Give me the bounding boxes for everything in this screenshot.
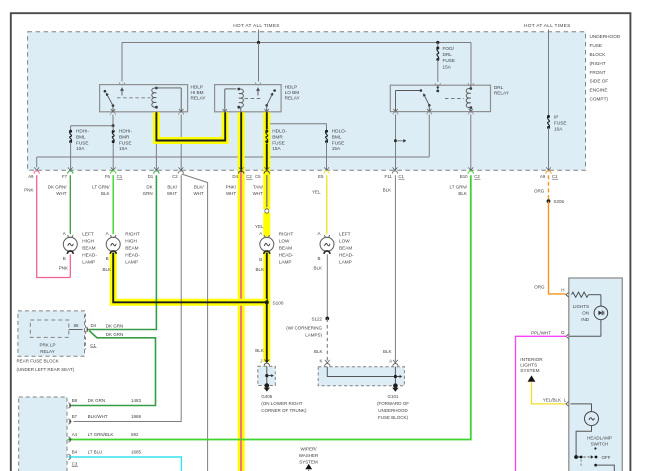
svg-text:B: B [259,257,262,262]
svg-text:BLK: BLK [313,266,322,271]
svg-text:BML: BML [332,134,342,139]
svg-text:A: A [63,231,66,236]
svg-text:WHT: WHT [56,191,66,196]
svg-text:FRONT: FRONT [590,70,606,75]
svg-text:FUSE: FUSE [332,140,345,145]
svg-text:HDLO-: HDLO- [332,129,347,134]
svg-text:BLK: BLK [383,188,392,193]
svg-text:B: B [106,256,109,261]
svg-text:C5: C5 [255,174,261,179]
svg-text:LEFT: LEFT [82,232,94,237]
svg-text:F7: F7 [62,174,68,179]
svg-text:S100: S100 [273,301,284,306]
svg-text:BMR: BMR [272,134,283,139]
svg-text:FUSE: FUSE [443,58,456,63]
svg-text:1483: 1483 [131,398,142,403]
svg-text:IP: IP [554,115,558,120]
svg-text:YEL: YEL [312,190,321,195]
svg-text:10A: 10A [76,146,85,151]
svg-text:D4: D4 [232,174,238,179]
svg-text:S206: S206 [554,199,565,204]
svg-text:A: A [106,231,109,236]
svg-text:DK GRN: DK GRN [88,398,106,403]
svg-text:FOG/: FOG/ [443,46,455,51]
svg-text:LAMPS): LAMPS) [305,332,322,337]
svg-text:15A: 15A [443,64,452,69]
svg-text:C2: C2 [172,174,178,179]
svg-text:WIPER/: WIPER/ [300,447,317,452]
svg-text:UNDERHOOD: UNDERHOOD [590,34,621,39]
svg-text:LO BM: LO BM [285,90,300,95]
svg-text:C1: C1 [552,174,558,179]
svg-text:BML: BML [76,134,86,139]
svg-text:LOW: LOW [339,239,350,244]
svg-text:HOT AT ALL TIMES: HOT AT ALL TIMES [524,23,571,29]
svg-text:FUSE: FUSE [590,43,603,48]
svg-text:A9: A9 [28,174,34,179]
svg-text:LIGHTS: LIGHTS [573,304,589,309]
svg-text:K: K [319,359,322,364]
svg-text:C2: C2 [246,174,252,179]
svg-text:BLK: BLK [101,191,110,196]
svg-text:DK GRN: DK GRN [106,323,124,328]
svg-text:SIDE OF: SIDE OF [590,79,609,84]
svg-text:PNK: PNK [24,188,33,193]
svg-text:FUSE: FUSE [119,140,132,145]
svg-text:GRN: GRN [143,191,153,196]
svg-text:10A: 10A [119,146,128,151]
svg-text:WASHER: WASHER [299,453,319,458]
svg-text:FUSE: FUSE [554,121,567,126]
svg-text:HDLP: HDLP [285,85,298,90]
svg-text:LT GRN/: LT GRN/ [450,184,468,189]
svg-text:C1: C1 [90,343,96,348]
svg-text:PNK: PNK [59,266,68,271]
svg-text:BLK: BLK [314,349,323,354]
svg-text:FUSE BLOCK): FUSE BLOCK) [378,415,409,420]
svg-text:(ON LOWER RIGHT: (ON LOWER RIGHT [261,401,303,406]
svg-text:A9: A9 [540,174,546,179]
svg-text:ORG: ORG [534,189,545,194]
svg-text:B8: B8 [72,398,78,403]
svg-text:PRK LP: PRK LP [39,343,55,348]
svg-text:LIGHTS: LIGHTS [520,363,537,368]
svg-text:SYSTEM: SYSTEM [299,460,318,465]
svg-text:DK GRN: DK GRN [106,332,124,337]
svg-text:BLK: BLK [255,267,264,272]
svg-text:C2: C2 [474,174,480,179]
svg-text:(W/ CORNERING: (W/ CORNERING [286,326,322,331]
svg-text:B7: B7 [72,414,78,419]
svg-text:OFF: OFF [602,455,611,460]
svg-text:A4: A4 [72,432,78,437]
svg-text:HDHI-: HDHI- [119,129,132,134]
svg-text:ON: ON [582,311,589,316]
svg-text:PNK/: PNK/ [226,184,237,189]
svg-text:S122: S122 [311,317,322,322]
svg-text:PPL/WHT: PPL/WHT [531,330,551,335]
svg-text:UNDERHOOD: UNDERHOOD [378,408,408,413]
svg-text:WHT: WHT [226,191,236,196]
svg-text:C1: C1 [117,174,123,179]
svg-text:BLK: BLK [383,349,392,354]
svg-text:10A: 10A [554,127,563,132]
svg-text:HDLO-: HDLO- [272,129,287,134]
svg-text:RELAY: RELAY [191,96,207,101]
svg-text:H: H [561,288,564,293]
svg-text:DK: DK [146,184,152,189]
svg-text:BEAM: BEAM [279,246,292,251]
svg-text:86: 86 [74,323,79,328]
svg-text:F6: F6 [105,174,111,179]
svg-text:BLK: BLK [102,267,111,272]
svg-text:(UNDER LEFT REAR SEAT): (UNDER LEFT REAR SEAT) [17,367,75,372]
svg-text:BLK/: BLK/ [194,184,205,189]
svg-text:LT BLU: LT BLU [88,450,103,455]
svg-text:15A: 15A [332,146,341,151]
svg-text:BMR: BMR [119,134,130,139]
svg-text:DRL: DRL [443,52,453,57]
svg-text:D4: D4 [91,323,97,328]
svg-text:B4: B4 [72,450,78,455]
svg-text:15A: 15A [272,146,281,151]
svg-text:WHT: WHT [253,191,263,196]
svg-text:HIGH: HIGH [125,239,137,244]
svg-text:BEAM: BEAM [339,246,352,251]
svg-text:WHT: WHT [193,191,203,196]
svg-text:SWITCH: SWITCH [591,442,609,447]
svg-text:HDHI-: HDHI- [76,129,89,134]
svg-text:592: 592 [131,432,139,437]
svg-text:DK GRN/: DK GRN/ [48,184,68,189]
svg-text:LAMP: LAMP [339,260,352,265]
svg-text:LAMP: LAMP [82,260,95,265]
svg-text:TAN/: TAN/ [253,184,264,189]
svg-text:E5: E5 [318,174,324,179]
svg-text:BLK/WHT: BLK/WHT [88,414,108,419]
svg-text:(RIGHT: (RIGHT [590,61,606,66]
svg-text:BLK: BLK [255,348,264,353]
svg-text:COMPT): COMPT) [590,97,609,102]
svg-text:BLK: BLK [458,191,467,196]
svg-text:HOT AT ALL TIMES: HOT AT ALL TIMES [233,23,280,29]
svg-text:HI BM: HI BM [191,90,204,95]
svg-text:BEAM: BEAM [82,246,95,251]
svg-text:HDLP: HDLP [191,85,204,90]
svg-text:HEAD-: HEAD- [339,253,354,258]
svg-text:LEFT: LEFT [339,232,351,237]
svg-text:REAR FUSE BLOCK: REAR FUSE BLOCK [17,359,59,364]
svg-text:SYSTEM: SYSTEM [520,368,539,373]
svg-text:A: A [259,231,262,236]
svg-text:RIGHT: RIGHT [125,232,140,237]
svg-text:G405: G405 [261,394,273,399]
svg-text:BLOCK: BLOCK [590,52,607,57]
svg-text:A: A [389,359,392,364]
svg-text:RELAY: RELAY [40,349,54,354]
svg-text:HEAD-: HEAD- [279,253,294,258]
svg-text:C3: C3 [72,462,78,467]
svg-text:LT GRN/BLK: LT GRN/BLK [88,432,114,437]
svg-text:HIGH: HIGH [82,239,94,244]
svg-text:IND: IND [581,317,590,322]
svg-text:1685: 1685 [131,450,142,455]
svg-text:CORNER OF TRUNK): CORNER OF TRUNK) [261,408,307,413]
svg-text:ORG: ORG [534,285,545,290]
svg-text:HEADLAMP: HEADLAMP [587,435,612,440]
svg-text:FUSE: FUSE [272,140,285,145]
svg-text:YEL/BLK: YEL/BLK [543,398,561,403]
svg-text:BLK/: BLK/ [167,184,178,189]
svg-text:LAMP: LAMP [279,260,292,265]
svg-text:J: J [260,358,262,363]
svg-text:B: B [63,256,66,261]
svg-text:FUSE: FUSE [76,140,89,145]
svg-text:LOW: LOW [279,239,290,244]
svg-text:ENGINE: ENGINE [590,88,608,93]
svg-text:1969: 1969 [131,414,142,419]
svg-text:LT GRN/: LT GRN/ [92,184,110,189]
svg-text:DRL: DRL [494,85,504,90]
svg-text:LAMP: LAMP [125,260,138,265]
svg-text:HEAD-: HEAD- [82,253,97,258]
svg-text:BEAM: BEAM [125,246,138,251]
svg-text:RELAY: RELAY [494,91,510,96]
svg-text:F11: F11 [385,174,393,179]
svg-text:G101: G101 [387,394,399,399]
svg-text:WHT: WHT [167,191,177,196]
svg-text:A: A [317,231,320,236]
svg-text:HEAD-: HEAD- [125,253,140,258]
svg-text:C1: C1 [398,174,404,179]
svg-text:B10: B10 [460,174,468,179]
svg-text:(FORWARD OF: (FORWARD OF [377,401,409,406]
svg-text:D1: D1 [148,174,154,179]
svg-text:B: B [317,256,320,261]
svg-text:YEL: YEL [255,224,264,229]
svg-text:INTERIOR: INTERIOR [520,357,543,362]
svg-text:RIGHT: RIGHT [279,232,294,237]
svg-text:RELAY: RELAY [285,96,301,101]
